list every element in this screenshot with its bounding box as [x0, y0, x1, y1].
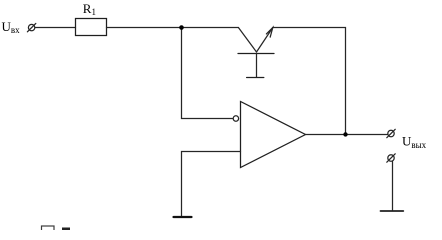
node Uвых output terminal	[387, 129, 395, 137]
cropped text artifact box at bottom edge	[42, 226, 55, 234]
transistor Q1 base end bar	[247, 77, 264, 79]
transistor Q1 emitter arrowhead	[266, 28, 272, 38]
cropped text artifact dash at bottom edge	[62, 228, 70, 231]
transistor Q1 collector slant	[238, 28, 256, 53]
wire transistor emitter to right corner	[273, 28, 346, 135]
wire input terminal to R1	[35, 27, 76, 29]
node Uвх input terminal	[27, 23, 35, 31]
wire junction to inverting input (vertical)	[182, 28, 234, 119]
wire op-amp output	[306, 134, 388, 136]
resistor R1	[76, 19, 107, 36]
ground right bar	[381, 210, 404, 212]
op-amp inverting input circle	[233, 116, 238, 121]
op-amp U1 triangle	[241, 102, 306, 168]
terminal lower output	[387, 154, 395, 162]
wire lower terminal to ground	[392, 162, 394, 211]
ground left bar	[174, 216, 192, 218]
junction dot at output node	[343, 132, 347, 136]
wire non-inverting input	[182, 152, 241, 217]
junction dot at R1 node	[179, 25, 184, 30]
transistor Q1 emitter slant with arrow	[257, 28, 273, 53]
transistor Q1 base lead	[256, 54, 258, 78]
transistor Q1 base bar	[238, 53, 274, 55]
wire R1 to transistor	[107, 27, 239, 29]
